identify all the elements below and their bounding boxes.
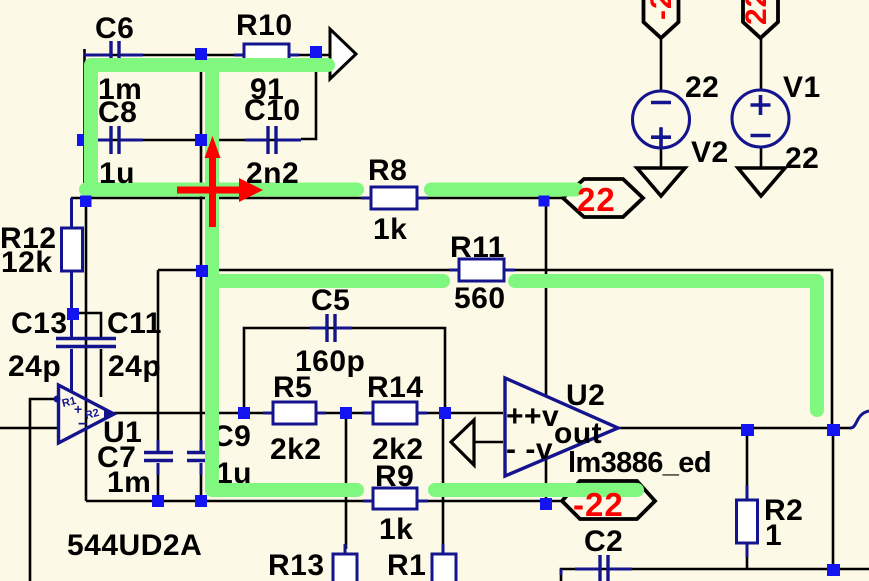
svg-text:1k: 1k: [379, 513, 413, 546]
svg-text:22: 22: [685, 71, 719, 104]
svg-text:R5: R5: [273, 371, 312, 404]
svg-text:lm3886_ed: lm3886_ed: [568, 447, 711, 479]
svg-text:22: 22: [785, 142, 819, 175]
svg-text:C6: C6: [95, 12, 134, 45]
svg-text:R11: R11: [450, 231, 505, 264]
svg-text:24p: 24p: [108, 350, 161, 383]
svg-text:C8: C8: [98, 96, 137, 129]
svg-text:R13: R13: [268, 549, 325, 581]
svg-text:R10: R10: [236, 9, 293, 42]
svg-text:C5: C5: [311, 284, 350, 317]
svg-text:560: 560: [454, 282, 506, 315]
svg-text:++v: ++v: [506, 400, 559, 433]
svg-text:+: +: [74, 401, 82, 417]
svg-text:2n2: 2n2: [246, 157, 299, 190]
svg-text:C2: C2: [584, 525, 623, 558]
svg-text:C11: C11: [107, 307, 162, 340]
svg-text:-22: -22: [573, 486, 624, 523]
svg-text:22: 22: [577, 181, 616, 218]
svg-text:R1: R1: [387, 549, 426, 581]
svg-text:C13: C13: [11, 307, 68, 340]
svg-text:24p: 24p: [8, 350, 61, 383]
svg-text:-22: -22: [645, 0, 678, 20]
svg-text:R8: R8: [368, 154, 407, 187]
svg-text:C10: C10: [244, 94, 301, 127]
svg-text:- -v: - -v: [506, 433, 553, 466]
svg-text:12k: 12k: [1, 246, 53, 279]
svg-text:1k: 1k: [373, 213, 407, 246]
svg-text:544UD2A: 544UD2A: [67, 529, 202, 562]
svg-text:R9: R9: [375, 460, 414, 493]
svg-text:22: 22: [740, 0, 773, 25]
svg-text:V1: V1: [783, 71, 821, 104]
svg-text:out: out: [554, 417, 602, 450]
svg-text:1u: 1u: [99, 157, 135, 190]
svg-text:V2: V2: [691, 136, 729, 169]
svg-text:−: −: [78, 416, 87, 433]
svg-text:1m: 1m: [107, 466, 151, 499]
svg-text:R14: R14: [367, 371, 424, 404]
svg-text:U2: U2: [566, 379, 605, 412]
svg-text:1: 1: [765, 519, 782, 552]
svg-text:2k2: 2k2: [270, 433, 322, 466]
